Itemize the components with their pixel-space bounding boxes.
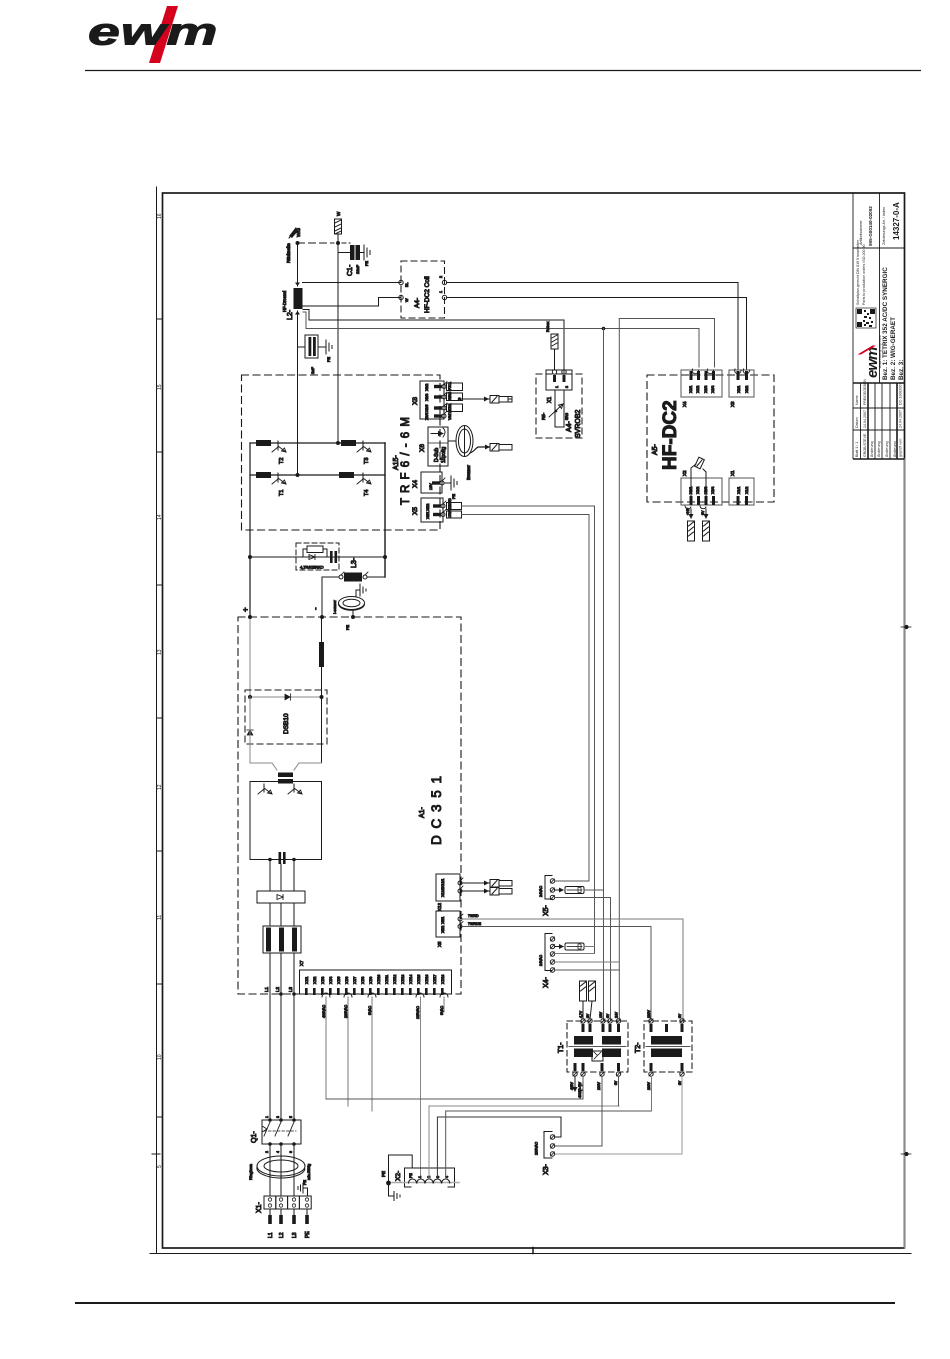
node dot ring <box>351 615 355 619</box>
ewm logo <box>88 6 218 63</box>
svg-text:4,7V: 4,7V <box>579 1010 583 1018</box>
box A1 DC351 dashed <box>238 617 461 994</box>
svg-text:X5/2: X5/2 <box>426 504 430 511</box>
node dots at box exit <box>279 992 296 996</box>
X7 wire 400VAC <box>325 997 327 1099</box>
svg-text:PE: PE <box>365 260 369 266</box>
pin coil right 2 <box>442 295 446 299</box>
svg-text:X8/2: X8/2 <box>425 384 429 391</box>
X7 pin ticks <box>305 988 444 995</box>
svg-text:400VAC: 400VAC <box>322 1004 326 1018</box>
label C1- 22nF <box>347 264 360 276</box>
T2 bottom labels <box>647 1080 682 1090</box>
svg-text:min.3Wdg: min.3Wdg <box>307 1164 311 1180</box>
snubber dashed box <box>296 543 339 570</box>
svg-text:L1: L1 <box>264 986 269 992</box>
neck wires to transformer <box>250 763 322 770</box>
wire L2 bottom to X4hf-2 <box>303 312 699 367</box>
svg-text:X2/4: X2/4 <box>711 487 715 494</box>
mains labels <box>268 1231 311 1238</box>
svg-text:5R6: 5R6 <box>565 413 569 420</box>
wire ring down <box>352 610 354 618</box>
inductor bar row2 left <box>256 472 271 478</box>
X2hf pin ticks <box>690 496 716 505</box>
svg-text:HF-Drossel: HF-Drossel <box>282 291 287 312</box>
svg-text:X8: X8 <box>412 397 419 405</box>
svg-text:995-G00140-02092: 995-G00140-02092 <box>868 206 873 246</box>
svg-text:L3: L3 <box>288 986 293 992</box>
svg-text:X3-: X3- <box>543 1163 550 1175</box>
svg-text:PE: PE <box>409 1173 413 1178</box>
T2 top pins <box>649 1019 684 1023</box>
svg-text:115VAC: 115VAC <box>416 1006 420 1019</box>
svg-text:X7/2: X7/2 <box>313 977 317 984</box>
svg-text:GROB/STEVE: GROB/STEVE <box>863 433 867 457</box>
label A4- HF-DC2 Coil <box>414 276 431 313</box>
X8 net labels <box>448 382 452 420</box>
svg-text:Schaltplan-gerecht DIN 819 5 b: Schaltplan-gerecht DIN 819 5 bearbeiten <box>856 240 860 305</box>
svg-text:X7/6: X7/6 <box>345 977 349 984</box>
svg-text:Brenner: Brenner <box>466 464 471 480</box>
ground at 2nF <box>326 340 332 354</box>
node dot L3 leg <box>320 615 324 619</box>
Q1 terminal dots <box>268 1118 296 1146</box>
svg-text:X5/2: X5/2 <box>441 926 445 933</box>
wire T2-0V to X3 <box>555 1076 682 1154</box>
wire resistor loop <box>303 549 327 557</box>
svg-text:7WRDE: 7WRDE <box>468 922 482 926</box>
node dots inverter out <box>268 858 296 862</box>
title revision table texts <box>855 379 903 457</box>
svg-text:0V: 0V <box>678 1080 682 1085</box>
wire X2-3 up <box>437 1117 561 1179</box>
svg-text:4: 4 <box>276 1151 280 1153</box>
transformer T1 dashed box <box>567 1021 628 1072</box>
connector X8 box <box>420 381 444 419</box>
svg-text:16: 16 <box>157 213 163 219</box>
svg-text:A4-: A4- <box>414 298 421 308</box>
connector X12 box <box>436 874 460 901</box>
toroid Ringkern <box>257 1156 305 1178</box>
T1 bottom pin ticks <box>574 1063 621 1071</box>
T2 bottom pins <box>649 1072 684 1076</box>
X5dc pin labels <box>441 917 445 933</box>
svg-text:HF-DC2 Coil: HF-DC2 Coil <box>424 276 431 313</box>
svg-text:1: 1 <box>555 386 559 388</box>
svg-text:X4/1: X4/1 <box>689 386 693 393</box>
svg-text:6: 6 <box>289 1151 293 1153</box>
svg-text:Q1-: Q1- <box>251 1131 258 1143</box>
X5 pin labels <box>426 504 430 519</box>
relay loop X2hf <box>691 457 706 496</box>
svg-text:A1-: A1- <box>419 806 426 818</box>
wire node B down to T3 <box>337 243 339 443</box>
connector X7 strip box <box>300 970 452 994</box>
X4hf pin ticks <box>690 371 716 380</box>
wire L2 bottom down to T-row <box>297 311 299 475</box>
inductor bar row1 left <box>256 440 271 446</box>
svg-text:24.04.2007: 24.04.2007 <box>899 410 903 428</box>
svg-text:+: + <box>241 607 250 612</box>
diode in snubber <box>309 555 315 560</box>
wire T1-0V down <box>618 1076 620 1106</box>
X2 socket arcs <box>409 1179 450 1183</box>
svg-text:0V: 0V <box>614 1080 618 1085</box>
svg-text:0V: 0V <box>701 510 705 515</box>
current sensor ring <box>338 597 364 611</box>
label A15- TRF6/-6M <box>393 416 412 505</box>
inductor L3 <box>339 572 368 582</box>
svg-text:X3: X3 <box>730 401 735 407</box>
mains blade ends <box>268 1215 309 1224</box>
svg-text:X7/17: X7/17 <box>433 975 437 984</box>
svg-text:X8/6: X8/6 <box>425 413 429 420</box>
connector X1 svrob box <box>546 370 572 390</box>
wires L1 L2 L3 down <box>270 953 294 1120</box>
svg-text:PE: PE <box>305 1231 311 1238</box>
svg-text:X12/1: X12/1 <box>441 879 445 888</box>
node junction dot B <box>336 241 340 245</box>
svg-text:Änderung: Änderung <box>885 441 889 457</box>
wire L2 to 2nF <box>298 346 306 348</box>
svg-text:A5-: A5- <box>652 443 659 455</box>
X8 pin ticks <box>434 385 442 418</box>
wire X2-2 up <box>429 1106 619 1179</box>
svg-text:X7/3: X7/3 <box>321 977 325 984</box>
svg-text:T4: T4 <box>364 490 370 496</box>
wire X4m-3 to bus <box>555 953 595 955</box>
svg-text:X8/5: X8/5 <box>425 405 429 412</box>
X8 pins <box>442 382 447 419</box>
T2 core bars <box>651 1036 682 1057</box>
diode glyph in box <box>277 895 283 900</box>
svg-text:18V: 18V <box>599 1011 603 1018</box>
X7 pin labels <box>305 975 445 984</box>
svg-text:T R F 6 / - 6 M: T R F 6 / - 6 M <box>400 416 412 505</box>
svg-text:PE: PE <box>327 356 331 362</box>
capacitor 2nF <box>305 335 326 358</box>
svg-text:0V: 0V <box>586 1013 590 1018</box>
capacitor in snubber <box>330 551 337 563</box>
svg-text:X1: X1 <box>730 470 735 476</box>
svg-text:0V: 0V <box>606 1013 610 1018</box>
svg-text:0VAC: 0VAC <box>368 1005 372 1015</box>
T1 bottom pins <box>573 1072 621 1076</box>
wire DSB10 left down <box>249 697 251 763</box>
svg-text:X7: X7 <box>299 960 304 966</box>
svg-text:Bez. 3:: Bez. 3: <box>898 360 905 380</box>
svg-text:230VAC: 230VAC <box>535 1141 539 1155</box>
X7 wire 230VAC <box>347 997 349 1106</box>
svg-text:X2/2: X2/2 <box>696 487 700 494</box>
svg-text:230V: 230V <box>647 1081 651 1090</box>
svg-text:-: - <box>311 607 320 610</box>
svg-text:9VAC: 9VAC <box>440 1005 444 1015</box>
svg-text:Ringkern: Ringkern <box>248 1164 253 1180</box>
box A15 TRF6/-6M dashed <box>242 375 441 530</box>
title Bez lines <box>882 267 905 380</box>
svg-text:X7/18: X7/18 <box>441 975 445 984</box>
wire igbt row2 <box>250 474 385 476</box>
svg-text:2: 2 <box>439 276 443 278</box>
resistor R5 <box>549 390 564 427</box>
svg-text:Rückseite: Rückseite <box>286 243 291 263</box>
pin labels coil right <box>439 276 443 293</box>
plug above svrob <box>551 334 558 370</box>
X4 pin <box>440 478 445 485</box>
svg-text:Name: Name <box>855 395 859 405</box>
svg-text:14327-0-A: 14327-0-A <box>892 202 901 240</box>
X12 pin labels <box>441 879 445 897</box>
wire ring to ground <box>356 590 360 597</box>
wire PE X2 loop <box>389 1155 413 1183</box>
wire coil to X3hf-2 <box>447 298 747 371</box>
svg-text:13: 13 <box>157 649 163 655</box>
svg-text:geprüft von:: geprüft von: <box>899 438 903 457</box>
wire coil W step to L2 bottom <box>303 298 401 307</box>
svg-text:X4: X4 <box>412 480 419 488</box>
X6 arrow glyph <box>431 428 445 437</box>
svg-text:X4/2: X4/2 <box>696 386 700 393</box>
svg-text:X1/1: X1/1 <box>737 487 741 494</box>
svg-text:Blatt 1 / 1: Blatt 1 / 1 <box>855 442 859 457</box>
svg-text:5: 5 <box>157 1165 163 1168</box>
node dot PE X2 <box>386 1181 391 1186</box>
plug X2hf-1 <box>688 521 695 541</box>
svg-text:WRG: WRG <box>448 391 452 400</box>
node dot DSB10 left <box>248 695 252 699</box>
svg-text:230V: 230V <box>647 1009 651 1018</box>
wire net labels <box>468 914 482 926</box>
X2hf pin hooks <box>685 506 706 509</box>
svg-text:EJ11: EJ11 <box>448 403 452 411</box>
X5 net labels <box>448 498 452 518</box>
footer rule <box>75 1302 895 1304</box>
ground at X4 <box>451 476 457 490</box>
svg-text:X6: X6 <box>419 444 426 452</box>
wires plugs to T1 <box>583 1001 592 1019</box>
X7 wire 0VAC <box>371 997 373 1111</box>
wire minus rail <box>321 617 323 697</box>
svg-text:SVROB2: SVROB2 <box>575 409 582 438</box>
wire X4 to PE <box>444 482 451 484</box>
svg-text:3: 3 <box>436 1176 440 1178</box>
svg-text:L2: L2 <box>279 1232 285 1238</box>
svg-text:X7/1: X7/1 <box>305 977 309 984</box>
svg-text:X3/2: X3/2 <box>745 386 749 393</box>
wire X5m-2 to fuse <box>555 888 564 893</box>
wire plus rail <box>249 617 251 697</box>
wire X2-4 up <box>446 1111 652 1179</box>
wire trf right vertical <box>384 443 386 577</box>
connector X5dc box <box>436 911 460 937</box>
frame main border <box>163 193 905 1248</box>
svg-text:X7/13: X7/13 <box>401 975 405 984</box>
label A4- SVROB2 <box>566 409 582 438</box>
wire X8 to plug <box>460 397 490 402</box>
wire X5m-1 to bus <box>555 880 589 882</box>
resistor block bars <box>266 928 297 952</box>
ground at X2 <box>389 1183 401 1201</box>
svg-text:ewm: ewm <box>88 11 218 53</box>
X5dc pins <box>458 914 463 929</box>
svg-text:11: 11 <box>157 915 163 920</box>
svg-text:W: W <box>405 298 409 302</box>
wires Q1 to X1 <box>270 1144 294 1196</box>
box A4 HF-DC2 Coil <box>401 261 445 318</box>
svg-text:X5-: X5- <box>543 904 550 916</box>
svg-text:X12/2: X12/2 <box>441 888 445 897</box>
node junction dot A <box>296 241 300 245</box>
svg-text:24.04.2007: 24.04.2007 <box>863 410 867 428</box>
capacitor at inverter bottom <box>279 852 286 864</box>
svg-text:Datum: Datum <box>855 417 859 428</box>
transistor glyph inv right <box>288 784 302 794</box>
svg-text:T3: T3 <box>364 458 370 464</box>
wires X1 to mains <box>270 1209 307 1222</box>
plug at Brenner wire <box>490 444 512 452</box>
X7 wire 115VAC <box>420 997 422 1179</box>
X2 through line <box>392 1182 459 1184</box>
wire X4m-5 to bus <box>555 969 620 971</box>
wire L2 bottom to SVROB2 X1-3 <box>303 310 564 375</box>
wire X5m-3 to T1 <box>555 898 611 1022</box>
pin BL <box>399 280 403 284</box>
svg-text:15: 15 <box>157 384 163 390</box>
svg-text:X4-: X4- <box>543 976 550 988</box>
X3hf pin ticks <box>737 371 749 380</box>
svg-text:5: 5 <box>289 1116 293 1118</box>
title QR code <box>856 308 876 328</box>
resistor in snubber <box>307 546 323 553</box>
svg-text:R5-: R5- <box>541 412 546 420</box>
svg-text:X2-: X2- <box>395 1171 402 1181</box>
svg-text:T2-: T2- <box>635 1042 642 1053</box>
X1 svrob pins <box>552 370 566 382</box>
wire X3-1 riser <box>555 1117 561 1137</box>
svg-text:X7/9: X7/9 <box>369 977 373 984</box>
wire X2hf-3 down arrow <box>704 509 709 519</box>
node dot snubber right <box>383 555 387 559</box>
zone numbers <box>157 213 163 1168</box>
wire X5-2 to X5m bus <box>462 515 590 882</box>
svg-text:T1-: T1- <box>558 1042 565 1053</box>
svg-text:D C 3 5 1: D C 3 5 1 <box>429 774 444 845</box>
svg-text:PE: PE <box>381 1171 386 1177</box>
transformer T2 dashed box <box>644 1021 692 1072</box>
svg-text:3: 3 <box>276 1116 280 1118</box>
connector X4hf box <box>681 370 722 397</box>
wires diode box down <box>270 903 294 926</box>
fold mark arrow upper <box>901 625 911 628</box>
connector X2 bracket <box>405 1168 455 1187</box>
svg-text:FREIGEGEBEN: FREIGEGEBEN <box>863 379 867 405</box>
wires inverter down <box>270 859 294 891</box>
pin W <box>399 295 403 299</box>
T2 top labels <box>647 1009 682 1018</box>
svg-text:X7/15: X7/15 <box>417 975 421 984</box>
inductor bar row1 right <box>341 440 356 446</box>
svg-text:X7/4: X7/4 <box>329 977 333 984</box>
svg-text:T1: T1 <box>279 490 285 496</box>
wire X4m-4 to bus <box>555 961 620 963</box>
wire X5dc-2 long <box>462 927 651 1022</box>
frame outer left line <box>156 187 158 1254</box>
labels L1 L2 L3 <box>264 986 293 992</box>
wire W plug to node <box>337 234 339 243</box>
svg-text:L2-: L2- <box>287 309 294 320</box>
wire T1 to 1099 <box>326 1076 583 1099</box>
inductor bar row2 right <box>339 472 354 478</box>
wire dashed stub <box>342 242 350 244</box>
wire X12-2 to plug <box>462 889 489 894</box>
svg-text:230VAC: 230VAC <box>344 1004 348 1018</box>
svg-text:230V: 230V <box>597 1081 601 1090</box>
svg-text:2nF: 2nF <box>310 367 315 374</box>
T2 core line <box>646 1046 690 1048</box>
wire Brenner to plug <box>470 445 490 454</box>
svg-text:3: 3 <box>565 386 569 388</box>
X1 svrob pin labels <box>555 386 569 388</box>
svg-text:2: 2 <box>265 1151 269 1153</box>
svg-text:X7/12: X7/12 <box>393 975 397 984</box>
wire X2hf-1 down arrow <box>689 509 694 519</box>
wire T1-230 to 1146 X3 <box>555 1076 602 1146</box>
frame zone ticks left <box>152 319 163 1154</box>
box A5 HF-DC2 dashed <box>647 375 774 502</box>
X4hf pin hooks <box>692 369 713 374</box>
shunt bar <box>319 642 324 667</box>
svg-text:X1/2: X1/2 <box>745 487 749 494</box>
svg-text:400/(3-0)V: 400/(3-0)V <box>578 1081 582 1098</box>
bus 603 L2 to T1 <box>603 329 605 1022</box>
plug X2hf-3 <box>703 521 710 541</box>
svg-text:X7/5: X7/5 <box>337 977 341 984</box>
X12 pins <box>458 878 463 893</box>
X7 wire 9VAC <box>443 997 445 1012</box>
title cell certification text <box>856 240 866 305</box>
X2 pin labels <box>409 1173 449 1178</box>
T1 top pin ticks <box>582 1024 621 1032</box>
svg-text:+HF: +HF <box>686 507 690 515</box>
transistor glyph inv left <box>258 784 272 794</box>
label BL W <box>405 282 409 302</box>
svg-text:DC-13082007: DC-13082007 <box>899 383 903 405</box>
T2 top pin ticks <box>650 1024 684 1032</box>
X3hf pin hooks <box>735 369 750 374</box>
svg-text:14: 14 <box>157 514 163 520</box>
svg-text:T2: T2 <box>279 458 285 464</box>
svg-text:A15-: A15- <box>393 455 400 470</box>
frame outer bottom line <box>150 1253 911 1255</box>
transistor T2 <box>272 441 286 452</box>
svg-text:X7/8: X7/8 <box>361 977 365 984</box>
Q1 switch glyphs <box>262 1122 296 1136</box>
plug X12-1 <box>490 880 512 888</box>
svg-text:15polig: 15polig <box>441 447 447 463</box>
svg-text:X1: X1 <box>547 397 553 403</box>
X7 wire labels <box>322 1004 444 1019</box>
wire X5dc-1 long <box>462 919 683 1021</box>
title cell Artikelnummer <box>859 206 873 246</box>
circular connector Brenner <box>448 426 473 457</box>
diode DSB10 top <box>285 694 291 700</box>
svg-text:4,7R/KERKO: 4,7R/KERKO <box>300 565 324 570</box>
node dot T1 row <box>296 473 300 477</box>
wire DSB10 right down <box>321 697 323 763</box>
svg-text:0V: 0V <box>678 1013 682 1018</box>
terminal X1 blocks <box>264 1196 311 1209</box>
